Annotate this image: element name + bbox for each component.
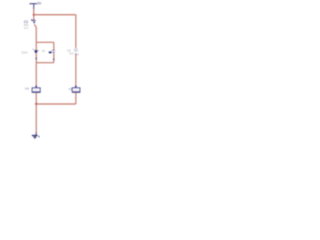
pin dot below C2: [36, 58, 37, 60]
wire box left edge lower: [35, 53, 37, 63]
wire left rail below box: [35, 63, 37, 86]
wire junction to ground: [35, 104, 37, 133]
capacitor C3 (right edge of loop, polarized): [49, 50, 55, 53]
ground: [32, 132, 38, 138]
junction dot A: [33, 14, 35, 16]
capacitor C2 (left edge of loop): [33, 49, 39, 52]
power symbol VCC 5V: [29, 4, 37, 9]
junction dot B: [35, 103, 37, 105]
wire box right edge upper: [53, 42, 55, 50]
capacitor C1 (polarized, top left): [32, 19, 36, 23]
svg-text:47: 47: [42, 49, 46, 53]
wire VCC to junction: [33, 9, 35, 20]
svg-text:U1: U1: [25, 87, 29, 91]
wire C1 to box top-left (with jog): [34, 24, 36, 42]
wire right rail upper: [75, 15, 77, 49]
capacitor C4 (right rail): [74, 49, 78, 51]
wire top horizontal: [34, 14, 76, 16]
net label 0: [38, 136, 39, 137]
wire right rail below C4: [75, 55, 77, 86]
svg-text:47n: 47n: [69, 52, 74, 56]
wire box bottom edge: [36, 62, 54, 64]
svg-text:U2: U2: [69, 87, 73, 91]
pin nub below C4: [75, 53, 76, 55]
ammeter U1: [32, 86, 40, 93]
wire U1 to ground junction: [35, 92, 37, 104]
wire bottom horizontal: [36, 103, 76, 105]
pin dot below C3: [53, 59, 54, 61]
svg-text:10V: 10V: [24, 26, 29, 30]
wire U2 to bottom corner: [75, 92, 77, 104]
ammeter U2: [72, 86, 80, 93]
wire box top edge: [36, 41, 54, 43]
wire box right edge lower: [53, 53, 55, 63]
wire box left edge upper: [35, 42, 37, 50]
